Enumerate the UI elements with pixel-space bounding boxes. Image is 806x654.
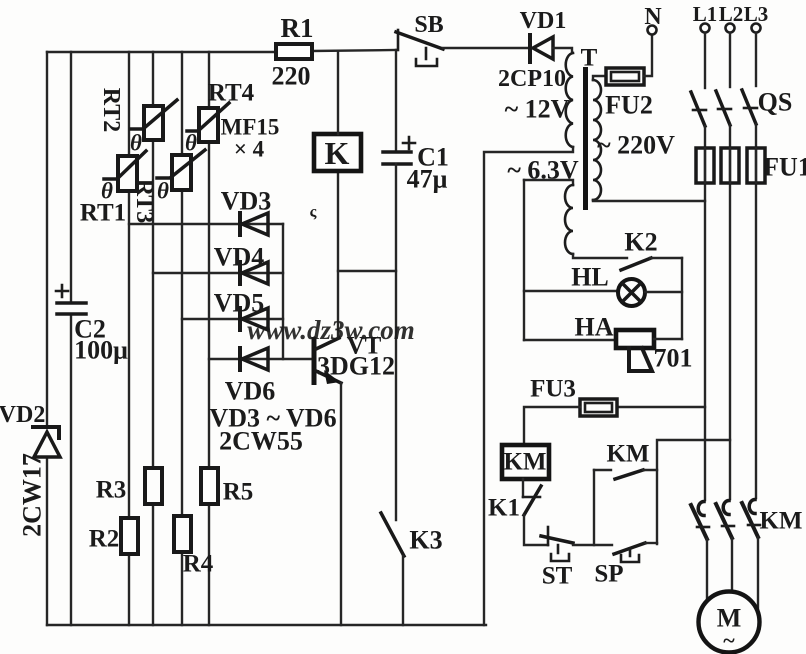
svg-text:VD3: VD3: [221, 187, 272, 216]
wire VT emitter down to bottom rail: [340, 383, 342, 625]
wire SB to VD1: [443, 47, 530, 49]
svg-text:2CW55: 2CW55: [219, 427, 303, 456]
resistor R3: [96, 468, 162, 504]
thermistor RT3: [131, 150, 205, 223]
wire RT3 branch vertical: [181, 52, 183, 625]
svg-text:KM: KM: [503, 449, 546, 476]
wire C1 bottom to K3: [395, 164, 397, 520]
svg-text:× 4: × 4: [234, 137, 265, 162]
terminal L3: [744, 2, 769, 33]
svg-text:FU1: FU1: [763, 153, 806, 182]
wire FU1 inner pole 2: [729, 148, 731, 183]
resistor R4: [174, 516, 214, 578]
svg-text:701: 701: [654, 344, 693, 373]
svg-text:K1: K1: [488, 495, 520, 522]
wire 220V top to FU2: [593, 76, 606, 80]
svg-text:VD6: VD6: [225, 377, 276, 406]
wire left frame vertical (node A): [46, 52, 48, 625]
start button SP: [594, 543, 645, 588]
zener diode VD2: [0, 402, 60, 537]
wire 220V bottom to L1 column: [593, 200, 705, 201]
svg-text:ST: ST: [542, 563, 573, 590]
fuse FU1 pole 2: [721, 148, 739, 183]
contactor KM main pole 1: [691, 502, 709, 540]
svg-text:N: N: [644, 4, 662, 30]
wire 12V winding bottom return: [484, 147, 573, 625]
wire L1 drop to QS: [704, 33, 706, 88]
svg-text:R5: R5: [223, 479, 254, 506]
svg-text:VD1: VD1: [520, 8, 567, 34]
svg-text:R2: R2: [89, 526, 120, 553]
wire KM pole 2 to motor: [731, 538, 733, 592]
wire top rail left: [47, 51, 276, 53]
svg-text:θ: θ: [130, 131, 142, 156]
wire 6.3V bottom to K2: [573, 254, 627, 258]
svg-text:K3: K3: [409, 526, 442, 555]
wire VD3 row: [129, 223, 283, 225]
switch QS pole 2: [716, 91, 731, 125]
svg-text:KM: KM: [606, 441, 649, 468]
wire lamp row right: [645, 291, 682, 293]
svg-text:θ: θ: [185, 131, 197, 156]
contactor KM main pole 3: [742, 500, 803, 538]
relay coil K: [314, 134, 361, 171]
svg-text:~ 12V: ~ 12V: [505, 95, 570, 124]
svg-text:RT3: RT3: [131, 179, 157, 224]
diode VD6: [225, 348, 276, 406]
wire control feed row (L1 to FU3): [617, 406, 705, 408]
motor M: [699, 592, 760, 653]
wire K1 to ST: [524, 515, 548, 545]
svg-text:K: K: [325, 135, 350, 171]
svg-text:R3: R3: [96, 477, 127, 504]
contactor coil KM: [502, 445, 549, 479]
transformer core: [583, 67, 588, 210]
svg-text:HL: HL: [571, 263, 609, 292]
svg-text:θ: θ: [101, 179, 113, 204]
svg-text:FU3: FU3: [530, 376, 576, 403]
svg-text:θ: θ: [157, 179, 169, 204]
wire control right rail: [657, 440, 730, 544]
svg-text:ς: ς: [310, 204, 317, 221]
wire VD4 row: [153, 272, 283, 274]
wire FU1 inner pole 3: [755, 148, 757, 183]
wire 6.3V left rail down: [523, 180, 525, 340]
transformer 220V winding: [593, 80, 675, 200]
svg-text:3DG12: 3DG12: [317, 352, 395, 381]
svg-text:FU2: FU2: [605, 91, 653, 120]
svg-text:~ 220V: ~ 220V: [597, 131, 675, 160]
wire QS to FU1 column 2: [729, 125, 731, 499]
wire buzzer row left: [524, 339, 616, 341]
svg-text:2CW17: 2CW17: [18, 453, 47, 537]
diode VD5: [214, 289, 268, 331]
pushbutton SB: [396, 12, 444, 66]
thermistor RT1: [80, 151, 146, 227]
diode VD4: [214, 243, 268, 285]
wire VD6 row to transistor base: [209, 358, 312, 360]
switch QS pole 1: [691, 92, 706, 126]
fuse FU3: [530, 376, 617, 417]
wire FU1 inner pole 1: [704, 148, 706, 183]
stop button ST: [541, 527, 573, 590]
resistor R1: [272, 13, 314, 91]
relay contact K1: [488, 479, 541, 522]
svg-text:SP: SP: [594, 561, 623, 588]
svg-text:R1: R1: [281, 13, 314, 43]
thermistor RT2: [98, 88, 177, 156]
svg-text:www.dz3w.com: www.dz3w.com: [247, 315, 415, 345]
svg-text:VD5: VD5: [214, 289, 265, 318]
wire RT4 branch vertical: [208, 52, 210, 625]
wire KM pole 1 to motor: [706, 539, 708, 602]
svg-text:L1: L1: [693, 2, 718, 26]
fuse FU2: [605, 68, 653, 120]
wire K2 rail down: [681, 258, 683, 339]
fuse FU1 pole 1: [696, 148, 714, 183]
wire junction row K C1: [338, 270, 396, 272]
relay contact K2: [621, 228, 682, 271]
wire ST to SP: [573, 544, 612, 546]
wire C2 branch vertical: [70, 52, 72, 625]
svg-text:RT1: RT1: [80, 200, 126, 227]
contactor KM main pole 2: [716, 501, 734, 539]
terminal L1: [693, 2, 718, 33]
transformer 6.3V winding: [507, 156, 579, 255]
terminal L2: [719, 2, 744, 33]
wire QS to FU1 column 1: [704, 126, 706, 500]
wire FU2 to N: [644, 35, 652, 76]
terminal N: [644, 4, 662, 35]
wire bottom rail: [47, 624, 486, 626]
thermistor RT4: [185, 80, 255, 156]
svg-text:RT2: RT2: [98, 88, 124, 133]
wire SP right corner: [645, 542, 657, 544]
label MF15 x4: [221, 115, 280, 162]
svg-text:~: ~: [723, 628, 735, 653]
svg-text:VD4: VD4: [214, 243, 265, 272]
buzzer HA 701: [575, 313, 693, 373]
svg-text:QS: QS: [758, 88, 793, 117]
capacitor C2: [56, 285, 128, 365]
wire lamp row left: [524, 290, 618, 292]
wire VD1 to transformer: [553, 48, 572, 53]
wire K coil top: [337, 52, 339, 134]
wire QS to FU1 column 3: [755, 124, 757, 498]
resistor R2: [89, 518, 138, 554]
svg-text:SB: SB: [414, 12, 443, 38]
wire FU3 to KM coil: [524, 407, 580, 445]
svg-text:KM: KM: [759, 508, 802, 535]
wire L3 drop to QS: [755, 33, 757, 86]
wire VD5 row: [182, 318, 283, 320]
diode VD1 2CP10: [498, 8, 566, 92]
transistor VT 3DG12: [314, 333, 395, 386]
switch K3: [381, 513, 443, 625]
svg-text:VD2: VD2: [0, 402, 45, 428]
svg-text:2CP10: 2CP10: [498, 66, 566, 92]
svg-text:220: 220: [272, 62, 311, 91]
svg-text:HA: HA: [575, 313, 614, 342]
indicator lamp HL: [571, 263, 645, 307]
fuse FU1 pole 3: [747, 148, 806, 183]
label VD3~VD6 2CW55: [209, 404, 336, 456]
wire top rail right of R1: [312, 50, 396, 51]
wire RT2 branch vertical: [152, 52, 154, 625]
svg-text:47μ: 47μ: [407, 165, 448, 194]
wire branch up to KM aux: [593, 470, 595, 545]
transformer T primary 12V winding: [505, 45, 598, 148]
wire KM pole 3 to motor: [757, 537, 759, 610]
switch QS pole 3: [742, 88, 792, 125]
auxiliary contact KM: [594, 441, 657, 480]
wire diode common vertical: [282, 224, 284, 359]
resistor R5: [201, 468, 253, 506]
svg-text:K2: K2: [624, 228, 657, 257]
wire L2 drop to QS: [729, 33, 731, 87]
svg-text:~ 6.3V: ~ 6.3V: [507, 156, 579, 185]
svg-text:L2: L2: [719, 2, 744, 26]
diode VD3: [221, 187, 272, 236]
capacitor C1: [383, 50, 449, 194]
svg-text:RT4: RT4: [208, 80, 255, 107]
wire buzzer row right: [654, 338, 682, 340]
wire RT1 branch vertical: [128, 52, 130, 625]
svg-text:L3: L3: [744, 2, 769, 26]
wire VT collector to K/C1 junction: [337, 171, 339, 338]
svg-text:R4: R4: [183, 551, 214, 578]
svg-text:100μ: 100μ: [74, 336, 128, 365]
